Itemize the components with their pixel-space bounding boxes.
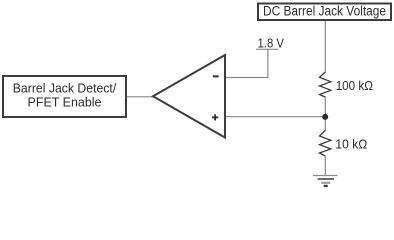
junction node: divider tap — [322, 114, 328, 120]
wire: DC Barrel Jack Voltage box down to R1 — [324, 21, 326, 73]
ground — [313, 176, 338, 186]
resistor R1 100 kOhm (zigzag) — [320, 72, 331, 97]
block: Barrel Jack Detect / PFET Enable (annotation box) — [3, 76, 126, 117]
svg-text:1.8 V: 1.8 V — [258, 36, 285, 51]
wire: inverting input to 1.8 V stub (horizontal) — [225, 77, 269, 79]
pin label: inverting input (-) — [213, 75, 219, 77]
svg-text:PFET Enable: PFET Enable — [28, 94, 102, 109]
wire: comparator output to Barrel Jack Detect block — [126, 96, 154, 98]
block: DC Barrel Jack Voltage (annotation box) — [258, 3, 391, 20]
svg-text:Barrel Jack Detect/: Barrel Jack Detect/ — [13, 80, 117, 95]
wire: non-inverting input to divider node (horizontal) — [225, 116, 326, 118]
net 1.8 V rail bar — [256, 48, 279, 50]
resistor R2 10 kOhm (zigzag) — [320, 131, 331, 157]
wire: 1.8 V stub (vertical) — [267, 49, 269, 78]
wire: R1 bottom through node to R2 top — [324, 97, 326, 132]
svg-text:DC Barrel Jack Voltage: DC Barrel Jack Voltage — [263, 3, 386, 18]
svg-text:10 kΩ: 10 kΩ — [335, 136, 367, 151]
svg-text:100 kΩ: 100 kΩ — [336, 78, 374, 93]
wire: R2 bottom to ground — [324, 156, 326, 176]
op-amp U1 (comparator triangle) — [153, 55, 225, 138]
pin label: non-inverting input (+) — [212, 114, 218, 120]
